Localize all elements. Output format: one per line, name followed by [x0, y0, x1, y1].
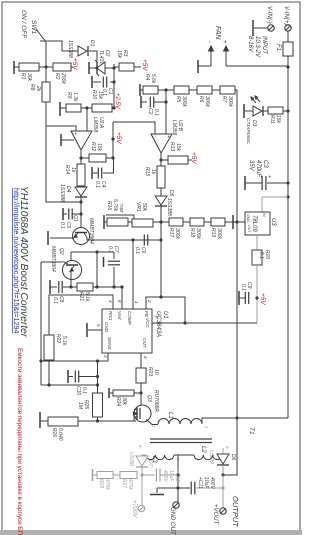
svg-text:VCC: VCC — [145, 318, 150, 328]
svg-text:OUT: OUT — [142, 338, 147, 349]
svg-text:R12: R12 — [90, 142, 96, 151]
fan - arrow — [210, 46, 212, 66]
svg-text:400V: 400V — [162, 470, 168, 482]
pot VR1 50k — [132, 219, 153, 227]
svg-text:300k: 300k — [227, 96, 233, 107]
center tap — [174, 455, 178, 502]
wire U2B out — [160, 153, 162, 166]
svg-text:R9: R9 — [66, 92, 72, 99]
svg-text:1M: 1M — [77, 402, 83, 410]
svg-text:5: 5 — [96, 324, 101, 327]
svg-text:5.6k: 5.6k — [150, 74, 156, 84]
node R9/R10 — [81, 107, 92, 109]
svg-text:1.3k: 1.3k — [72, 92, 78, 102]
pin 7 VCC wire — [152, 322, 257, 324]
diode D1 1SS388 — [78, 46, 87, 56]
node rail top — [286, 65, 289, 68]
svg-text:10uF: 10uF — [203, 477, 209, 489]
capacitor C2 — [140, 96, 142, 108]
svg-text:R21: R21 — [78, 292, 84, 301]
svg-text:RtCt: RtCt — [108, 311, 113, 321]
wire U2B inv row — [113, 122, 155, 134]
ground bar D3 — [243, 104, 245, 118]
wire — [254, 27, 268, 29]
drain out — [146, 420, 158, 425]
svg-text:R19: R19 — [210, 228, 216, 237]
timing column — [97, 361, 99, 393]
node R4/R5 — [164, 88, 167, 91]
svg-text:T1: T1 — [248, 427, 255, 435]
svg-text:Q3: Q3 — [146, 395, 152, 402]
capacitor C7 — [103, 257, 105, 267]
pin 4 RtCt wire — [49, 295, 113, 335]
svg-text:TL431: TL431 — [98, 50, 104, 64]
svg-text:10.3-2V: 10.3-2V — [254, 36, 260, 58]
svg-text:200k: 200k — [60, 72, 66, 84]
wire — [226, 65, 288, 67]
svg-text:15k: 15k — [116, 50, 122, 59]
svg-text:0.1: 0.1 — [107, 246, 113, 253]
fan + arrow — [225, 46, 227, 66]
ground bar R4 — [139, 84, 141, 96]
wire feedback column — [223, 90, 237, 475]
wire — [14, 66, 19, 68]
svg-text:1SS388: 1SS388 — [59, 184, 65, 202]
svg-text:1SS388: 1SS388 — [67, 40, 73, 58]
resistor R24 — [134, 392, 141, 394]
svg-text:RU7088R: RU7088R — [153, 390, 159, 412]
resistor R21 — [71, 286, 77, 288]
mosfet stubs — [134, 409, 137, 411]
terminal V-IN(-) — [268, 25, 274, 31]
svg-text:+700V: +700V — [131, 500, 137, 519]
svg-text:C10: C10 — [75, 386, 81, 395]
svg-text:4: 4 — [138, 445, 143, 448]
svg-text:+5V: +5V — [141, 59, 148, 71]
svg-text:+: + — [165, 135, 171, 138]
svg-text:'74B': '74B' — [119, 203, 124, 213]
svg-text:V-IN(-): V-IN(-) — [266, 6, 272, 24]
svg-text:+: + — [72, 132, 78, 135]
svg-text:R7: R7 — [221, 96, 227, 103]
svg-text:FB: FB — [144, 311, 149, 317]
svg-text:R15: R15 — [144, 167, 150, 176]
svg-text:IN: IN — [262, 213, 266, 217]
svg-text:1: 1 — [134, 301, 139, 304]
svg-text:+5V: +5V — [259, 293, 266, 305]
svg-text:0.1: 0.1 — [52, 297, 58, 304]
svg-text:C3: C3 — [262, 160, 268, 168]
svg-text:470uF: 470uF — [255, 160, 261, 177]
svg-text:30k: 30k — [121, 397, 127, 406]
diode D6 US3M — [217, 454, 229, 464]
node D6 — [221, 473, 224, 476]
switch SW1 — [36, 29, 46, 42]
resistor R1 — [19, 63, 39, 71]
svg-text:R11: R11 — [269, 115, 275, 124]
svg-text:30k: 30k — [26, 73, 32, 82]
svg-text:http://impulsite.ru/viewtopic.: http://impulsite.ru/viewtopic.php?f=15&t… — [12, 188, 21, 333]
transformer T1 primary L1 — [158, 419, 169, 425]
svg-text:LM358: LM358 — [171, 120, 177, 136]
pot wiper — [106, 215, 134, 219]
svg-text:50k: 50k — [141, 203, 147, 212]
resistor R23 — [136, 368, 146, 383]
svg-text:R22: R22 — [55, 334, 61, 343]
svg-text:D7: D7 — [147, 460, 153, 467]
wire U2A out — [80, 150, 82, 164]
svg-text:R5: R5 — [175, 96, 181, 103]
ground bar rail A — [13, 61, 15, 74]
svg-text:15k: 15k — [97, 91, 103, 100]
svg-text:GND: GND — [246, 214, 250, 222]
diode D4 1SS388 — [75, 187, 87, 196]
svg-text:15k: 15k — [96, 143, 102, 152]
gnd out symbol — [157, 487, 178, 489]
svg-text:+5V: +5V — [190, 152, 197, 164]
capacitor C5 — [62, 208, 64, 220]
resistor R27 gray — [120, 472, 137, 479]
wire — [89, 51, 97, 68]
regulator U3 78L09 — [245, 212, 270, 235]
wire — [287, 56, 289, 67]
resistor R25 — [93, 393, 103, 417]
diode D5 1SS388 — [155, 196, 167, 205]
svg-text:+5V: +5V — [71, 58, 78, 70]
resistor R7 — [220, 86, 235, 94]
svg-text:R8: R8 — [29, 84, 35, 91]
svg-text:5.1k: 5.1k — [84, 292, 90, 302]
svg-text:+VOUT: +VOUT — [212, 504, 218, 526]
wire primary to rail — [202, 418, 288, 424]
svg-text:R10: R10 — [91, 90, 97, 99]
svg-text:U3: U3 — [270, 218, 276, 226]
svg-text:0.1: 0.1 — [258, 252, 264, 259]
svg-text:0.1: 0.1 — [81, 387, 87, 394]
resistor R20 — [252, 250, 262, 265]
node switch/R8 — [39, 66, 53, 68]
fuse F1 — [283, 42, 293, 56]
svg-text:5.76k: 5.76k — [112, 199, 118, 212]
svg-text:D6: D6 — [230, 454, 236, 461]
capacitor C1 — [112, 80, 115, 83]
IC U1 UC3843A — [102, 309, 152, 353]
wire L2 to D6 — [220, 454, 223, 455]
svg-text:300k: 300k — [181, 96, 187, 107]
svg-text:US3M: US3M — [208, 450, 214, 465]
svg-text:0.1: 0.1 — [134, 247, 140, 254]
wire Q1 emitter — [50, 237, 74, 239]
svg-text:1k: 1k — [150, 169, 156, 175]
LED D3 — [253, 106, 262, 116]
svg-text:R27: R27 — [121, 479, 127, 488]
resistor R9 — [66, 104, 81, 112]
resistor R3 — [113, 64, 115, 68]
wire — [263, 110, 268, 112]
node U3 — [286, 195, 289, 198]
resistor R19 — [211, 218, 225, 226]
resistor R2 — [53, 63, 71, 71]
svg-text:C2: C2 — [147, 108, 153, 115]
svg-text:300k: 300k — [174, 228, 180, 239]
svg-text:INPUT: INPUT — [261, 36, 267, 55]
resistor R17 — [169, 218, 183, 226]
wire D1 branch — [40, 41, 78, 51]
ground bar fan — [197, 60, 199, 73]
svg-text:R4: R4 — [144, 74, 150, 81]
svg-text:1SS388: 1SS388 — [166, 198, 172, 216]
ground bar U3 — [233, 221, 245, 223]
svg-text:5.1k: 5.1k — [61, 336, 67, 346]
svg-text:R2: R2 — [54, 73, 60, 80]
wire — [245, 110, 253, 112]
wire +700V gray — [141, 475, 143, 505]
shunt ref D2 TL431 — [89, 67, 97, 69]
svg-text:6: 6 — [143, 356, 148, 359]
gate bar — [139, 408, 141, 419]
svg-text:+: + — [266, 175, 272, 178]
resistor R14 — [77, 164, 85, 186]
svg-text:3: 3 — [103, 355, 108, 358]
svg-text:ON / OFF: ON / OFF — [20, 10, 27, 39]
svg-text:L2: L2 — [200, 446, 206, 453]
svg-text:R17: R17 — [168, 228, 174, 237]
capacitor C8 — [49, 280, 51, 294]
wire Vref connect — [121, 287, 123, 309]
svg-text:SW1: SW1 — [30, 20, 37, 34]
wire U3 out — [256, 235, 258, 250]
svg-text:15k: 15k — [275, 115, 281, 124]
capacitor C3 470uF — [267, 182, 288, 184]
svg-text:Q2: Q2 — [58, 248, 64, 255]
op-amp U2:B LM358 — [151, 134, 172, 153]
resistor R10 — [92, 104, 112, 112]
resistor R26 shunt — [48, 417, 78, 426]
svg-text:0.1: 0.1 — [240, 284, 246, 291]
svg-text:0.1: 0.1 — [153, 109, 159, 116]
secondary L3 — [146, 455, 155, 460]
channel bar — [136, 407, 138, 420]
capacitor C12 gray — [142, 474, 155, 476]
resistor R5 — [174, 86, 189, 94]
wire divider column — [160, 206, 162, 297]
wire R8 down — [46, 102, 81, 202]
resistor R12 — [81, 157, 89, 159]
resistor R18 — [190, 218, 204, 226]
terminal V-IN(+) — [285, 25, 291, 31]
node +5V — [255, 296, 258, 299]
svg-text:300k: 300k — [216, 228, 222, 239]
resistor R6 — [197, 86, 212, 94]
pin 2 FB wire — [146, 297, 185, 323]
wire main rail — [287, 67, 289, 418]
wire inv input U2A — [46, 126, 76, 131]
svg-text:1k: 1k — [70, 167, 76, 173]
svg-text:+C11: +C11 — [197, 477, 203, 489]
secondary L2 — [194, 455, 203, 460]
wire U3 in — [262, 196, 288, 198]
svg-text:R28: R28 — [98, 479, 104, 488]
svg-text:R18: R18 — [189, 228, 195, 237]
resistor R11 — [283, 110, 288, 112]
resistor R13 — [161, 159, 168, 161]
svg-text:FAN: FAN — [214, 26, 221, 40]
op-amp U2:A LM358 — [71, 131, 92, 150]
svg-text:R23: R23 — [147, 367, 153, 376]
node C3 — [286, 181, 289, 184]
svg-text:470k: 470k — [104, 479, 110, 490]
svg-text:8: 8 — [117, 300, 122, 303]
svg-text:400V: 400V — [209, 477, 215, 489]
svg-text:U1: U1 — [162, 311, 168, 319]
transistor Q3 RU7088R — [134, 405, 151, 422]
svg-text:4: 4 — [108, 300, 113, 303]
svg-text:6: 6 — [225, 446, 230, 449]
resistor R16 — [107, 218, 128, 226]
svg-text:OUT: OUT — [247, 225, 251, 233]
resistor R15 — [157, 166, 165, 188]
node TL431 — [112, 66, 115, 69]
svg-text:GND OUT: GND OUT — [169, 507, 175, 535]
svg-text:R6: R6 — [198, 96, 204, 103]
svg-text:300k: 300k — [204, 96, 210, 107]
svg-text:COMP: COMP — [127, 311, 132, 326]
node R11 — [286, 109, 289, 112]
capacitor C11 — [178, 487, 190, 489]
diode D7 US3M gray — [142, 455, 146, 456]
wire +2.5V net — [113, 68, 115, 108]
svg-text:Емкости эквивалентов переделан: Емкости эквивалентов переделаны при уста… — [16, 348, 23, 535]
wire gnd row — [41, 384, 98, 386]
svg-text:GND: GND — [104, 322, 109, 333]
ground bar R16 — [103, 215, 105, 229]
svg-text:R14: R14 — [64, 165, 70, 174]
svg-text:R24: R24 — [115, 397, 121, 406]
svg-text:MMBT3904: MMBT3904 — [50, 246, 56, 272]
svg-text:300k: 300k — [195, 228, 201, 239]
svg-text:V-IN(+): V-IN(+) — [283, 6, 289, 25]
svg-text:R1: R1 — [20, 73, 26, 80]
wire comp row — [93, 286, 122, 288]
core — [150, 438, 212, 440]
svg-text:R13: R13 — [169, 142, 175, 151]
page edge shading — [0, 530, 302, 535]
wire — [96, 252, 98, 287]
wire +out — [222, 475, 224, 501]
svg-text:US3M: US3M — [128, 452, 134, 467]
capacitor C10 — [67, 370, 69, 383]
svg-text:OUTPUT: OUTPUT — [231, 496, 240, 528]
svg-text:470k: 470k — [127, 479, 133, 490]
svg-text:Vref: Vref — [117, 311, 122, 320]
transistor Q2 MMBT3904 — [70, 252, 72, 261]
svg-text:D1: D1 — [89, 40, 95, 47]
wire U2B noninv stub — [165, 90, 167, 134]
svg-text:10: 10 — [153, 369, 159, 375]
terminal +700V gray — [138, 505, 144, 511]
resistor R4 — [140, 89, 143, 91]
svg-text:SENS: SENS — [107, 337, 112, 350]
capacitor C6 — [143, 235, 145, 246]
svg-text:L1: L1 — [167, 412, 173, 419]
+5V net vertical — [112, 122, 114, 158]
terminal +VOUT — [222, 501, 224, 508]
ground bar R9 — [59, 102, 61, 116]
pin 3 SENS wire — [41, 353, 108, 361]
svg-text:0.1: 0.1 — [94, 181, 100, 188]
svg-text:1: 1 — [204, 426, 209, 429]
wire — [71, 66, 73, 68]
wire Vcc — [256, 265, 258, 323]
svg-text:3: 3 — [151, 425, 156, 428]
wire COMP vertical — [132, 240, 134, 309]
pin 6 OUT wire — [140, 353, 142, 366]
resistor R28 gray — [97, 472, 113, 479]
resistor R8 — [45, 67, 47, 82]
svg-text:C73APD66C: C73APD66C — [246, 118, 251, 145]
wire D4 down — [80, 197, 82, 231]
ground bar input — [252, 20, 254, 36]
wire — [287, 31, 289, 42]
wire — [198, 65, 211, 67]
capacitor C4 — [113, 157, 114, 159]
wire Q2 collector down — [40, 262, 42, 385]
svg-text:R16: R16 — [106, 201, 112, 210]
svg-text:D5: D5 — [168, 190, 174, 197]
pin 5 GND wire — [88, 329, 102, 331]
transistor Q1 MMBT3904 — [73, 228, 90, 245]
svg-text:0.1: 0.1 — [59, 222, 65, 229]
ground bar R26 — [39, 412, 41, 428]
terminal GND OUT — [173, 502, 179, 508]
svg-text:2: 2 — [147, 299, 152, 303]
capacitor C9 — [244, 292, 246, 304]
ground bar D2 — [88, 62, 90, 74]
svg-text:7: 7 — [153, 315, 158, 318]
svg-text:LM358: LM358 — [92, 117, 98, 133]
svg-text:35V: 35V — [248, 160, 254, 172]
svg-text:VR1: VR1 — [135, 202, 141, 212]
svg-text:8-16V: 8-16V — [247, 36, 253, 53]
opamp gnd stub — [60, 134, 62, 146]
svg-text:15k: 15k — [175, 143, 181, 152]
svg-text:-: - — [206, 41, 212, 43]
wire noninv stub — [86, 108, 88, 131]
svg-text:F1: F1 — [275, 44, 281, 51]
svg-text:+: + — [221, 40, 227, 44]
wire Q1 collector row — [87, 239, 161, 241]
svg-text:0.040: 0.040 — [57, 428, 63, 441]
svg-text:+5V: +5V — [115, 132, 122, 144]
resistor R22 — [44, 335, 54, 360]
svg-text:2k: 2k — [35, 85, 41, 92]
svg-text:R26: R26 — [51, 428, 57, 437]
wire base row — [71, 251, 114, 253]
svg-text:Q1: Q1 — [72, 215, 78, 222]
